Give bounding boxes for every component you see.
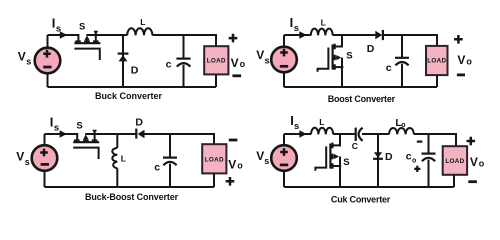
svg-text:LOAD: LOAD	[205, 156, 224, 163]
svg-text:S: S	[79, 21, 85, 32]
svg-text:D: D	[131, 64, 139, 76]
output minus mark (buck)	[232, 74, 241, 77]
label S (boost)	[346, 50, 352, 61]
svg-text:LOAD: LOAD	[207, 58, 226, 65]
wire: source top lead (boost)	[283, 35, 285, 47]
wire: top rail left (cuk)	[284, 133, 311, 135]
svg-text:D: D	[367, 43, 375, 55]
label Vo (cuk)	[470, 155, 485, 169]
output plus mark (cuk)	[467, 137, 476, 146]
wire: source top lead (buck-boost)	[44, 134, 46, 145]
svg-text:S: S	[76, 120, 82, 131]
wire: bottom rail (buck-boost)	[45, 186, 215, 188]
label Is (cuk)	[290, 113, 299, 132]
capacitor c (buck-boost): top plate	[163, 157, 177, 159]
capacitor Co (cuk): curved bottom plate	[422, 158, 435, 161]
svg-text:Buck-Boost Converter: Buck-Boost Converter	[85, 192, 179, 202]
output minus mark (boost)	[457, 74, 465, 77]
svg-text:C: C	[352, 141, 358, 151]
capacitor branch bottom wire (buck-boost)	[169, 164, 171, 187]
svg-text:L: L	[140, 17, 145, 27]
output plus mark (buck-boost)	[226, 177, 235, 186]
wire: load bottom lead (buck-boost)	[213, 173, 215, 187]
diode D (boost): triangle	[375, 31, 382, 39]
svg-text:V: V	[18, 49, 26, 63]
capacitor Co minus mark	[417, 141, 423, 143]
transistor S (cuk): source lead	[330, 165, 341, 167]
svg-text:V: V	[228, 157, 236, 171]
label Is (buck-boost)	[50, 115, 59, 134]
wire: top rail inductor to capacitor (cuk)	[333, 133, 354, 135]
svg-text:I: I	[52, 16, 56, 31]
output minus mark (buck-boost)	[229, 139, 238, 142]
current arrow Is (cuk)	[299, 130, 306, 138]
wire: top rail capacitor to diode junction (cuk)	[362, 133, 389, 135]
wire: source top lead (cuk)	[283, 134, 285, 145]
transistor S (boost): drain drop	[334, 35, 342, 47]
label c (boost)	[386, 62, 392, 74]
transistor S (boost): body arrow right	[335, 57, 338, 59]
svg-text:c: c	[406, 151, 412, 163]
voltage source Vs (buck-boost)	[32, 145, 58, 171]
svg-text:o: o	[240, 59, 246, 69]
svg-text:Buck Converter: Buck Converter	[95, 91, 163, 101]
voltage source Vs (cuk)	[271, 145, 297, 171]
transistor S (buck-boost): contact pads	[74, 139, 97, 141]
wire: top rail left + transistor drain drop (buck)	[48, 35, 79, 43]
capacitor C (buck): curved bottom plate	[177, 63, 191, 67]
label c (buck)	[166, 59, 172, 71]
Vs plus mark (buck-boost)	[40, 149, 48, 157]
label S (cuk)	[343, 157, 349, 168]
wire: source top lead (buck)	[47, 35, 49, 48]
label Vs (boost)	[256, 48, 269, 65]
load resistor box (cuk)	[443, 146, 467, 175]
transistor S (boost): gate bar and lead	[318, 48, 329, 72]
svg-text:LOAD: LOAD	[445, 158, 464, 165]
capacitor c (buck-boost): curved bottom plate	[163, 162, 176, 165]
svg-text:c: c	[166, 59, 172, 71]
svg-text:V: V	[470, 155, 478, 169]
caption (buck-boost)	[85, 192, 179, 202]
label D (buck-boost)	[135, 117, 143, 129]
transistor S (cuk): contact pads	[331, 143, 333, 169]
wire: transistor source down (cuk)	[339, 157, 341, 188]
label Is (boost)	[290, 15, 299, 34]
svg-text:o: o	[237, 161, 243, 171]
svg-text:s: s	[294, 121, 299, 132]
diode D (buck-boost): triangle	[138, 130, 145, 138]
capacitor branch top wire (boost)	[401, 35, 403, 57]
label C (cuk)	[352, 141, 358, 151]
label L (boost)	[321, 18, 326, 28]
label D (buck)	[131, 64, 139, 76]
capacitor branch top wire (buck-boost)	[169, 134, 171, 157]
inductor L (buck)	[127, 28, 152, 35]
svg-text:o: o	[412, 157, 416, 164]
svg-text:s: s	[25, 157, 30, 167]
svg-text:c: c	[154, 161, 160, 173]
capacitor Co (cuk): top plate	[422, 153, 436, 155]
label Vo (buck-boost)	[228, 157, 243, 171]
wire: bottom rail (boost)	[284, 86, 437, 88]
svg-text:L: L	[321, 18, 326, 28]
svg-text:I: I	[290, 15, 294, 30]
svg-text:V: V	[16, 150, 24, 164]
svg-text:V: V	[256, 149, 264, 163]
diode D (cuk): cathode bar	[373, 158, 383, 160]
transistor S (cuk): drain drop	[331, 134, 340, 145]
svg-text:Boost Converter: Boost Converter	[328, 94, 396, 104]
voltage source Vs (boost)	[271, 47, 297, 73]
svg-text:o: o	[479, 159, 485, 169]
inductor branch top wire (buck-boost)	[116, 134, 118, 148]
svg-text:D: D	[385, 151, 393, 163]
transistor S (boost): contact pads	[333, 44, 335, 70]
transistor S (cuk): channel bar	[329, 144, 331, 169]
transistor S (boost): channel bar	[332, 45, 334, 70]
load resistor box (buck-boost)	[202, 144, 226, 173]
svg-text:c: c	[386, 62, 392, 74]
load resistor box (boost)	[426, 46, 448, 75]
capacitor C (buck): top plate	[176, 57, 190, 59]
transistor S (buck-boost): gate bar and lead	[73, 148, 98, 159]
transistor S (buck-boost): source lead tick	[94, 131, 96, 142]
transistor S (buck): channel bar	[74, 42, 100, 44]
wire: bottom rail (cuk)	[284, 186, 454, 188]
label S (buck)	[79, 21, 85, 32]
svg-text:D: D	[135, 117, 143, 129]
diode D (buck): cathode bar	[118, 52, 129, 54]
Vs plus mark (boost)	[280, 49, 288, 57]
label S (buck-boost)	[76, 120, 82, 131]
svg-text:s: s	[264, 156, 269, 166]
Vs minus mark (cuk)	[280, 164, 288, 167]
capacitor branch bottom wire (boost)	[401, 64, 403, 87]
label Is (buck)	[52, 16, 61, 35]
caption (buck)	[95, 91, 163, 101]
output minus mark (cuk)	[468, 180, 477, 183]
wire: top rail inductor to diode (boost)	[333, 34, 376, 36]
current arrow Is (buck)	[60, 31, 67, 39]
svg-text:s: s	[294, 23, 299, 34]
wire: top rail diode to corner (boost)	[383, 35, 437, 46]
Vs plus mark	[43, 50, 51, 58]
wire: top rail diode to corner (buck-boost)	[145, 134, 215, 144]
label Vo (boost)	[457, 53, 472, 67]
transistor S (cuk): body arrow right	[333, 156, 336, 158]
svg-text:V: V	[457, 53, 465, 67]
transistor S (buck-boost): body arrow up	[85, 139, 87, 142]
Vs minus mark (boost)	[280, 65, 288, 68]
diode D (boost): cathode bar	[382, 30, 384, 40]
svg-text:s: s	[54, 123, 59, 134]
capacitor C (cuk): curved right plate	[359, 128, 363, 141]
caption (boost)	[328, 94, 396, 104]
diode D (buck): triangle	[119, 55, 128, 62]
inductor L (cuk)	[311, 128, 333, 135]
label Vs (cuk)	[256, 149, 269, 166]
wire: load bottom lead (boost)	[436, 75, 438, 87]
wire: bottom rail (buck)	[48, 86, 217, 88]
current arrow Is (boost)	[299, 31, 306, 39]
label D (cuk)	[385, 151, 393, 163]
svg-text:o: o	[401, 122, 405, 129]
diode branch wire (cuk)	[377, 134, 379, 187]
capacitor branch bottom wire (cuk)	[428, 160, 430, 187]
transistor S (cuk): gate bar and lead	[315, 146, 326, 170]
svg-text:s: s	[56, 24, 61, 35]
wire: load bottom lead (cuk)	[453, 175, 455, 187]
transistor S (buck): gate bar and lead	[74, 49, 99, 60]
transistor S (buck): body arrow up	[86, 40, 88, 43]
svg-text:S: S	[343, 157, 349, 168]
capacitor branch top wire (buck)	[183, 35, 185, 58]
inductor branch bottom wire (buck-boost)	[116, 168, 118, 187]
caption (cuk)	[331, 195, 391, 205]
wire: top rail left + transistor drain drop (buck-boost)	[45, 134, 78, 142]
Vs minus mark (buck-boost)	[41, 163, 49, 166]
capacitor Co plus mark	[414, 166, 420, 172]
label L (buck)	[140, 17, 145, 27]
svg-text:L: L	[121, 154, 126, 164]
label L (cuk)	[319, 117, 324, 127]
svg-text:s: s	[26, 57, 31, 67]
transistor S (buck): source lead tick	[95, 32, 97, 43]
capacitor C (cuk): left plate	[355, 128, 357, 141]
voltage source Vs (buck)	[35, 48, 61, 74]
capacitor branch top wire (cuk)	[428, 134, 430, 153]
wire: source bottom lead (cuk)	[283, 171, 285, 187]
Vs minus mark	[43, 66, 51, 69]
svg-text:L: L	[319, 117, 324, 127]
diode branch wire (buck)	[122, 35, 124, 87]
inductor L (boost)	[311, 29, 333, 36]
capacitor c (boost): top plate	[395, 57, 409, 59]
label L (buck-boost)	[121, 154, 126, 164]
label D (boost)	[367, 43, 375, 55]
wire: transistor source down (boost)	[341, 58, 343, 87]
Vs plus mark (cuk)	[280, 148, 288, 156]
inductor L (buck-boost) vertical coil	[112, 148, 117, 168]
capacitor c (boost): curved bottom plate	[395, 62, 408, 65]
wire: top rail inductor to corner (buck)	[152, 35, 216, 46]
wire: top rail Lo to corner (cuk)	[414, 134, 456, 146]
wire: top rail from source to right corner (buck)	[86, 34, 127, 36]
wire: source bottom lead (buck)	[47, 74, 49, 88]
transistor S (buck): contact pads	[75, 40, 98, 42]
svg-text:s: s	[265, 55, 270, 65]
label Vs (buck)	[18, 49, 31, 66]
svg-text:V: V	[256, 48, 264, 62]
label Co (cuk)	[406, 151, 416, 165]
load resistor box (buck)	[204, 46, 228, 74]
svg-text:S: S	[346, 50, 352, 61]
svg-text:Cuk Converter: Cuk Converter	[331, 195, 391, 205]
diode D (cuk): triangle down	[374, 152, 382, 158]
wire: top rail from source to diode (buck-boost)	[85, 133, 136, 135]
transistor S (buck-boost): channel bar	[73, 141, 99, 143]
svg-text:I: I	[50, 115, 54, 130]
label c (buck-boost)	[154, 161, 160, 173]
output plus mark (boost)	[454, 35, 463, 44]
svg-text:V: V	[231, 56, 239, 70]
wire: source bottom lead (boost)	[283, 73, 285, 88]
wire: load bottom lead (buck)	[215, 74, 217, 87]
svg-text:o: o	[466, 56, 472, 66]
capacitor branch bottom wire (buck)	[183, 65, 185, 87]
wire: top rail left (boost)	[284, 34, 311, 36]
wire: source bottom lead (buck-boost)	[44, 171, 46, 187]
label Vs (buck-boost)	[16, 150, 29, 167]
label Lo (cuk)	[395, 117, 405, 129]
inductor Lo (cuk)	[389, 128, 414, 134]
transistor S (boost): source lead	[333, 66, 344, 68]
label Vo (buck)	[231, 56, 246, 70]
svg-text:LOAD: LOAD	[427, 58, 446, 65]
output plus mark (buck)	[229, 34, 238, 43]
current arrow Is (buck-boost)	[60, 130, 67, 138]
diode D (buck-boost): cathode bar	[135, 129, 137, 139]
